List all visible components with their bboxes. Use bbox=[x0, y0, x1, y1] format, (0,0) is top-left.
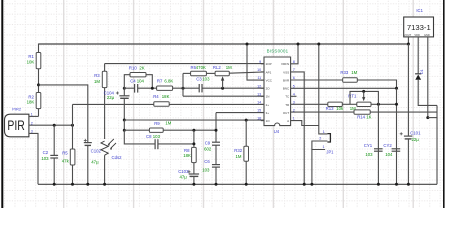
capacitor C6 bbox=[212, 164, 220, 166]
wire right ground column bbox=[436, 105, 438, 184]
svg-text:1: 1 bbox=[323, 130, 325, 134]
capacitor C9 bbox=[212, 141, 220, 143]
wire R3 top bbox=[104, 64, 106, 72]
wire R5 riser bbox=[72, 104, 74, 149]
wire pin 3 row bbox=[291, 103, 328, 105]
svg-text:104: 104 bbox=[137, 79, 145, 84]
wire col396 down bbox=[396, 88, 398, 184]
node GND pin junction bbox=[426, 116, 429, 119]
wire GND spur bbox=[428, 117, 437, 119]
svg-text:R33: R33 bbox=[340, 70, 348, 75]
svg-text:Cds2: Cds2 bbox=[112, 155, 123, 160]
svg-text:A: A bbox=[287, 119, 289, 123]
wire C9-C6 bbox=[215, 145, 217, 164]
node C2/gnd bbox=[53, 183, 56, 186]
svg-text:47k: 47k bbox=[62, 158, 70, 163]
svg-text:2OP: 2OP bbox=[266, 62, 272, 66]
svg-text:2K: 2K bbox=[139, 65, 144, 70]
node row88/col183 bbox=[182, 87, 185, 90]
svg-text:RL2: RL2 bbox=[213, 65, 221, 70]
svg-text:R9: R9 bbox=[154, 121, 160, 126]
svg-text:PIR: PIR bbox=[7, 118, 25, 133]
wire C102 bottom bbox=[87, 145, 89, 184]
capacitor C104 plus sign bbox=[116, 92, 119, 94]
resistor R1 bbox=[36, 53, 41, 69]
svg-text:22µ: 22µ bbox=[107, 95, 115, 100]
svg-text:18K: 18K bbox=[27, 100, 35, 105]
wire col193 upper bbox=[193, 130, 195, 147]
capacitor C101 plus sign bbox=[400, 133, 403, 135]
svg-text:OUT: OUT bbox=[283, 111, 290, 115]
svg-text:BVR: BVR bbox=[283, 79, 290, 83]
svg-text:R32: R32 bbox=[234, 148, 242, 153]
node RT1/col378 bbox=[377, 103, 380, 106]
wire Cds2 bottom bbox=[104, 155, 106, 184]
wire IC1 VOUT pin bbox=[407, 37, 409, 44]
node C103/gnd bbox=[192, 183, 195, 186]
capacitor C104 bbox=[119, 95, 129, 97]
svg-text:R3: R3 bbox=[94, 73, 100, 78]
wire pin 15 row bbox=[216, 112, 264, 114]
node pin5/R33 bbox=[395, 87, 398, 90]
wire pin 13 row bbox=[183, 95, 264, 97]
node Cds2/gnd bbox=[103, 183, 106, 186]
node C101/gnd bbox=[407, 183, 410, 186]
svg-text:CY1: CY1 bbox=[364, 143, 373, 148]
capacitor C102 plus sign bbox=[84, 139, 87, 141]
wire R3 to Cds2 bbox=[104, 88, 106, 139]
resistor R5 bbox=[70, 149, 75, 165]
wire R32 bottom bbox=[245, 161, 247, 184]
capacitor C2 bbox=[50, 154, 58, 156]
svg-text:47µ: 47µ bbox=[180, 175, 188, 180]
svg-text:2O: 2O bbox=[266, 87, 271, 91]
capacitor CY1 bbox=[374, 148, 383, 150]
svg-text:22µ: 22µ bbox=[412, 137, 420, 142]
svg-text:D1: D1 bbox=[420, 69, 424, 74]
svg-text:C2: C2 bbox=[43, 150, 49, 155]
svg-text:VSS: VSS bbox=[283, 70, 289, 74]
node R9row/col216 bbox=[215, 129, 218, 132]
svg-text:2+: 2+ bbox=[266, 103, 270, 107]
resistor R10 bbox=[130, 73, 146, 77]
wire col124 down to C8 wire bbox=[124, 130, 155, 144]
wire PIR pin3 to ground rail bbox=[29, 133, 38, 184]
svg-text:VRFN: VRFN bbox=[281, 62, 289, 66]
svg-text:1O: 1O bbox=[266, 119, 271, 123]
node pin16row/col124 bbox=[123, 119, 126, 122]
node RL2 wiper foot bbox=[221, 87, 224, 90]
svg-text:1: 1 bbox=[323, 145, 325, 149]
resistor R33 bbox=[343, 78, 358, 82]
node row88/C104 bbox=[123, 87, 126, 90]
component PIR2 sensor outline bbox=[5, 114, 29, 137]
wire RT1 wiper bbox=[363, 91, 365, 97]
node C8/col193 bbox=[192, 142, 195, 145]
svg-text:1M: 1M bbox=[94, 79, 100, 84]
svg-text:1M: 1M bbox=[226, 65, 232, 70]
resistor R13 bbox=[328, 102, 343, 106]
wire PIR pin1 bbox=[29, 115, 39, 117]
resistor R4 bbox=[154, 102, 169, 106]
wire PIR pin2 bbox=[29, 124, 73, 126]
svg-text:3+: 3+ bbox=[266, 111, 270, 115]
svg-text:5: 5 bbox=[293, 84, 295, 88]
resistor R3 bbox=[102, 71, 107, 87]
wire RT1 top feed bbox=[350, 91, 378, 104]
node pin2/R5 bbox=[71, 124, 74, 127]
wire pin 8 to rail bbox=[291, 44, 298, 64]
node pin16/R32 bbox=[245, 119, 248, 122]
wire JP1 pin2 bbox=[312, 141, 328, 150]
wire row88 segment a bbox=[124, 87, 134, 89]
wire pin 5 row bbox=[291, 87, 397, 89]
svg-text:13: 13 bbox=[257, 92, 261, 96]
node col396/gnd bbox=[395, 183, 398, 186]
svg-text:CY2: CY2 bbox=[383, 143, 392, 148]
node RT1 wiper top bbox=[362, 90, 365, 93]
resistor R32 bbox=[244, 146, 249, 161]
svg-text:R8: R8 bbox=[184, 148, 190, 153]
svg-text:103: 103 bbox=[202, 168, 210, 173]
wire C6 bottom bbox=[215, 167, 217, 184]
wire D1 anode to gnd column bbox=[418, 80, 437, 106]
wire IC1 GND pin bbox=[427, 37, 429, 118]
wire R6-RL2 bbox=[206, 72, 215, 74]
node col378/gnd bbox=[377, 183, 380, 186]
svg-text:R1: R1 bbox=[28, 54, 34, 59]
resistor R14 bbox=[354, 110, 370, 114]
wire bottom ground rail bbox=[38, 183, 437, 185]
svg-text:2: 2 bbox=[319, 136, 321, 140]
photoresistor Cds2 bbox=[101, 141, 108, 155]
wire col124 to R9 row bbox=[123, 120, 125, 130]
svg-text:10: 10 bbox=[257, 68, 261, 72]
svg-text:1N: 1N bbox=[266, 95, 270, 99]
wire C8 right bbox=[158, 143, 194, 145]
node R9row/col193 bbox=[192, 129, 195, 132]
svg-text:14: 14 bbox=[257, 101, 261, 105]
node R32/gnd bbox=[245, 183, 248, 186]
wire R13-RT1 bbox=[342, 103, 357, 105]
svg-text:103: 103 bbox=[41, 156, 49, 161]
left border bbox=[1, 0, 3, 208]
wire C101 bottom bbox=[407, 139, 409, 184]
connector JP1 bracket bbox=[327, 134, 330, 142]
node RT1/col396 bbox=[395, 103, 398, 106]
svg-text:BISS0001: BISS0001 bbox=[267, 48, 289, 53]
capacitor C3 bbox=[198, 84, 200, 92]
node rail/JP1 bbox=[317, 43, 320, 46]
svg-text:18K: 18K bbox=[162, 94, 170, 99]
node pin7/gnd bbox=[303, 183, 306, 186]
wire RL2 to pin 10 bbox=[229, 72, 264, 73]
node C6/gnd bbox=[215, 183, 218, 186]
node R10/R7 bbox=[151, 87, 154, 90]
node rail/VOUT bbox=[407, 43, 410, 46]
right border bbox=[445, 0, 450, 208]
wire R1 top bbox=[38, 44, 40, 53]
wire C2 top bbox=[53, 125, 55, 155]
svg-text:1K: 1K bbox=[366, 114, 371, 119]
node rail/pin11 bbox=[246, 43, 249, 46]
svg-text:1M: 1M bbox=[236, 154, 242, 159]
wire bias R1R2 to C102 bbox=[39, 85, 88, 143]
resistor R6 bbox=[191, 71, 207, 75]
svg-text:3: 3 bbox=[31, 130, 33, 134]
wire top supply rail bbox=[39, 43, 409, 45]
wire R10 left riser bbox=[124, 75, 130, 89]
svg-text:C102: C102 bbox=[91, 148, 102, 153]
svg-text:R14: R14 bbox=[357, 114, 365, 119]
svg-text:R7: R7 bbox=[157, 79, 163, 84]
node R1/R2 junction bbox=[37, 83, 40, 86]
wire pin 4 stub bbox=[291, 95, 297, 97]
svg-text:C101: C101 bbox=[410, 131, 421, 136]
svg-text:7133-1: 7133-1 bbox=[407, 23, 431, 32]
svg-text:103: 103 bbox=[365, 152, 373, 157]
capacitor C4 bbox=[134, 84, 136, 93]
svg-text:R2: R2 bbox=[28, 94, 34, 99]
wire pin 2 row bbox=[291, 111, 437, 113]
wire R32 top bbox=[245, 120, 247, 146]
svg-text:C103: C103 bbox=[178, 169, 189, 174]
wire pin 9 row bbox=[105, 63, 264, 65]
major grid lines bbox=[63, 0, 65, 208]
component IC1 7133-1 box bbox=[404, 17, 434, 37]
wire row88 segment c to pin 12 bbox=[202, 87, 264, 89]
svg-text:PIR2: PIR2 bbox=[12, 106, 22, 111]
wire R10 right riser bbox=[146, 75, 152, 89]
svg-text:1: 1 bbox=[31, 113, 33, 117]
wire row88 segment b bbox=[138, 87, 200, 89]
wires U4 left pin stubs bbox=[261, 63, 264, 65]
svg-text:VDD: VDD bbox=[414, 33, 420, 37]
svg-text:R13: R13 bbox=[326, 106, 334, 111]
wire R4 row to pin 14 bbox=[73, 103, 265, 105]
svg-text:12: 12 bbox=[257, 84, 261, 88]
wire JP1 feed stub bbox=[312, 150, 325, 185]
svg-text:C9: C9 bbox=[205, 140, 211, 145]
wire col183 bbox=[182, 73, 184, 96]
node C102/gnd bbox=[86, 183, 89, 186]
svg-text:JP1: JP1 bbox=[326, 150, 334, 155]
svg-text:U4: U4 bbox=[274, 129, 280, 134]
svg-text:VOUT: VOUT bbox=[404, 33, 412, 37]
wire pin 11 from rail bbox=[247, 44, 264, 80]
svg-text:47µ: 47µ bbox=[91, 159, 99, 164]
wire C104 top bbox=[123, 88, 125, 96]
wire pin 6 to R33 bbox=[291, 79, 343, 81]
capacitor CY2 bbox=[392, 148, 401, 150]
wire RT1 right bbox=[371, 103, 397, 105]
node R9row/col124 bbox=[123, 129, 126, 132]
node JP1feed/gnd bbox=[310, 183, 313, 186]
svg-text:16: 16 bbox=[257, 117, 261, 121]
svg-text:C4: C4 bbox=[130, 79, 136, 84]
svg-text:C6: C6 bbox=[204, 159, 210, 164]
svg-text:R4: R4 bbox=[153, 94, 159, 99]
svg-text:AP1: AP1 bbox=[266, 70, 272, 74]
svg-text:10k: 10k bbox=[336, 106, 344, 111]
wire pin 16 row bbox=[124, 119, 264, 121]
wire RL2 wiper bbox=[222, 80, 224, 88]
wire C104 bottom bbox=[123, 98, 125, 120]
capacitor C103 plus sign bbox=[188, 171, 191, 173]
svg-text:6.8K: 6.8K bbox=[164, 79, 173, 84]
svg-text:18K: 18K bbox=[183, 153, 191, 158]
op-amp U4 BISS0001 body bbox=[264, 57, 291, 126]
resistor R9 bbox=[149, 128, 163, 132]
svg-text:1M: 1M bbox=[165, 121, 171, 126]
resistor R7 bbox=[157, 86, 173, 90]
wire R8-C103 bbox=[193, 163, 195, 174]
component RL2 wiper arrow bbox=[221, 76, 224, 80]
svg-text:103: 103 bbox=[202, 77, 210, 82]
resistor RL2 bbox=[215, 71, 229, 75]
svg-text:R5: R5 bbox=[62, 150, 68, 155]
photoresistor Cds2 arrows bbox=[108, 139, 116, 148]
svg-text:2: 2 bbox=[31, 121, 33, 125]
capacitor C8 bbox=[154, 139, 156, 149]
node rail/pin8 bbox=[297, 43, 300, 46]
wire pin 7 to ground bbox=[291, 72, 305, 184]
node pin2/C2 bbox=[53, 124, 56, 127]
svg-text:104: 104 bbox=[385, 152, 393, 157]
svg-text:103: 103 bbox=[153, 134, 161, 139]
node R5/gnd bbox=[71, 183, 74, 186]
resistor R8 bbox=[192, 147, 197, 162]
resistor R2 bbox=[36, 93, 41, 109]
wire pin 1 to JP1 feed bbox=[291, 121, 319, 126]
wire R2 bottom to PIR pin1 bbox=[38, 109, 40, 117]
wire R9 row bbox=[124, 129, 216, 131]
capacitor C103 bbox=[189, 173, 199, 175]
svg-text:1M: 1M bbox=[351, 70, 357, 75]
wire IC1 VDD pin to D1 bbox=[417, 37, 419, 74]
svg-text:BNC: BNC bbox=[283, 87, 290, 91]
svg-text:602: 602 bbox=[204, 147, 212, 152]
svg-text:VCC: VCC bbox=[266, 79, 273, 83]
wire col378 down bbox=[377, 104, 379, 184]
wire R5 bottom bbox=[72, 165, 74, 184]
svg-text:470K: 470K bbox=[196, 65, 206, 70]
diode D1 bbox=[415, 73, 421, 75]
wire R1-R2 bbox=[38, 69, 40, 93]
wire rail to JP1 pin1 bbox=[319, 44, 328, 134]
svg-text:GND: GND bbox=[424, 33, 430, 37]
wire col216 upper bbox=[215, 113, 217, 143]
wire R6 left bbox=[183, 72, 191, 74]
wire VOUT column down bbox=[407, 44, 409, 136]
capacitor C101 bbox=[404, 135, 412, 137]
wire C103 bottom bbox=[193, 176, 195, 184]
resistor RT1 bbox=[357, 102, 371, 106]
capacitor C102 bbox=[84, 142, 92, 144]
svg-text:R10: R10 bbox=[129, 65, 137, 70]
svg-text:10K: 10K bbox=[27, 60, 35, 65]
svg-text:IC1: IC1 bbox=[416, 8, 423, 13]
wire R33 right bbox=[357, 80, 396, 88]
svg-text:C8: C8 bbox=[146, 134, 152, 139]
wire C2 bottom bbox=[53, 158, 55, 184]
component RT1 wiper arrow bbox=[362, 97, 365, 101]
svg-text:15: 15 bbox=[257, 109, 261, 113]
